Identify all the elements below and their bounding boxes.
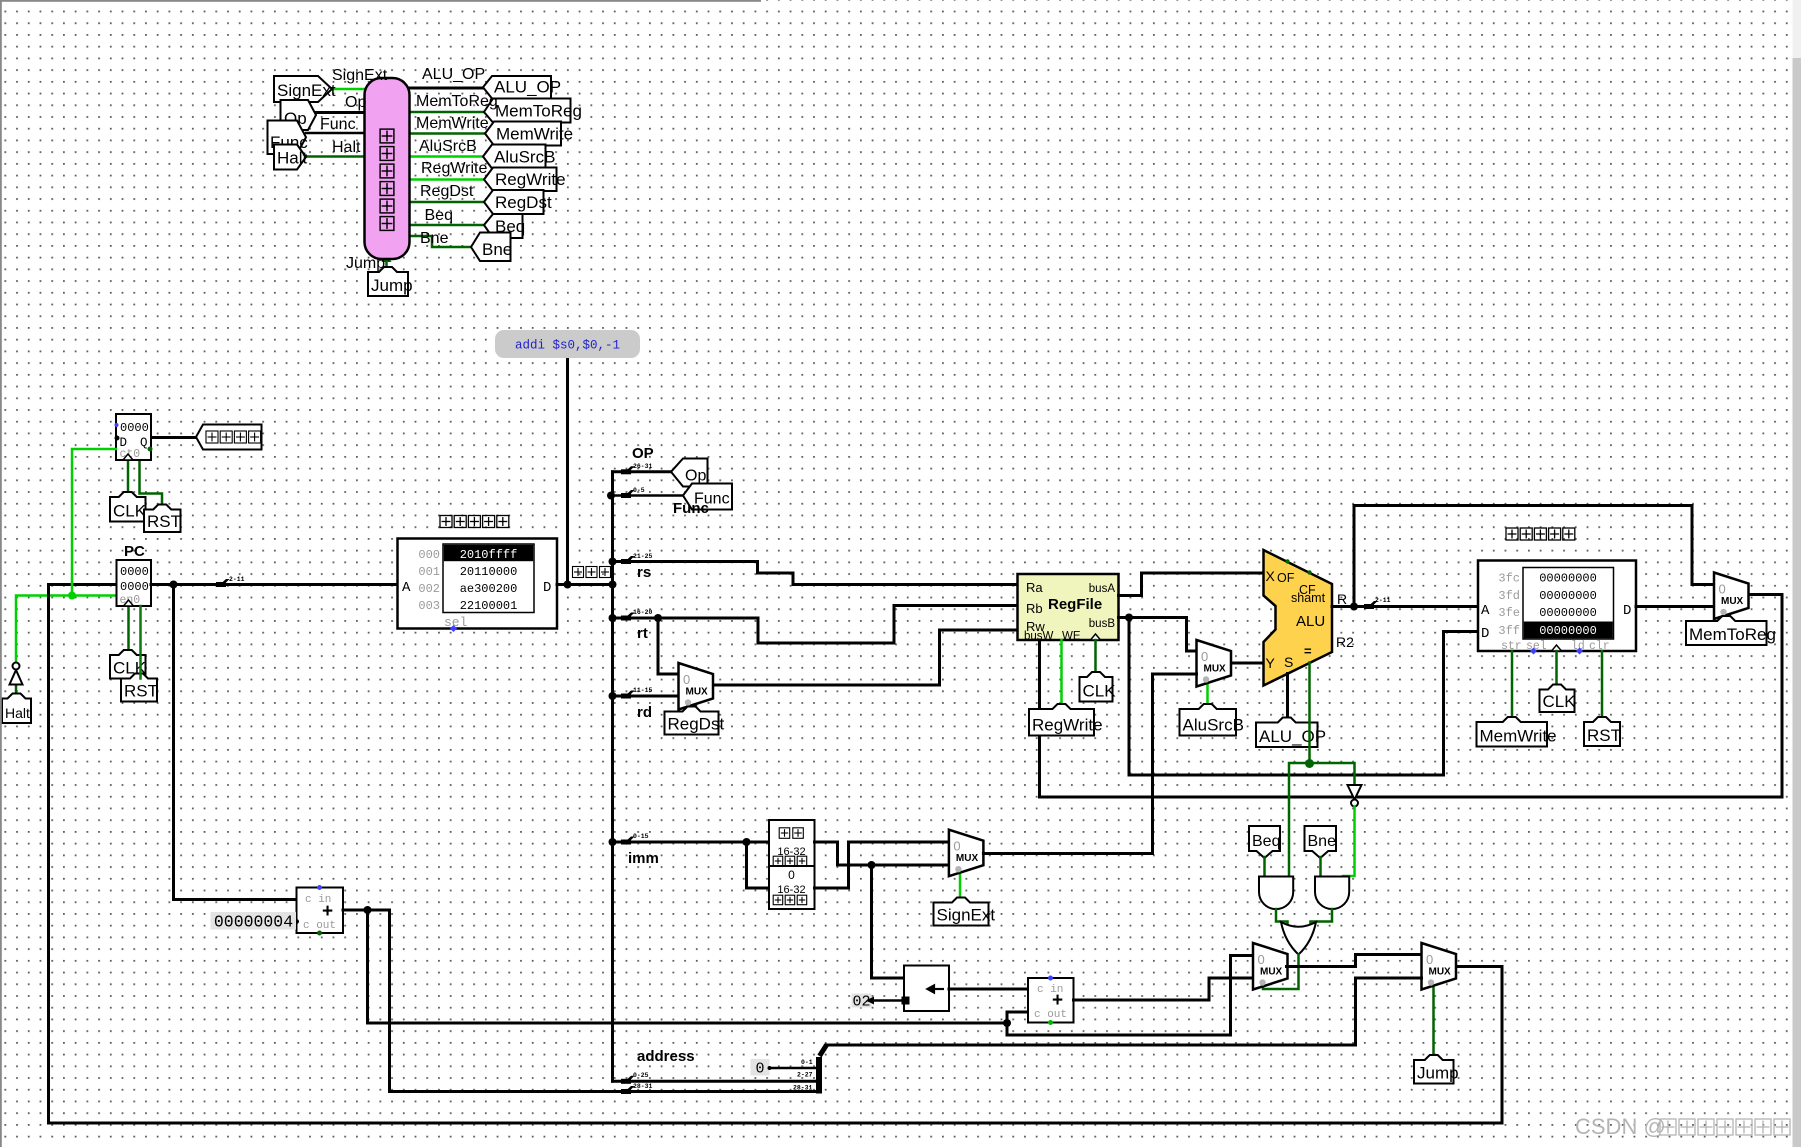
svg-text:MUX: MUX bbox=[956, 853, 979, 864]
splitter marker 26-31 bbox=[621, 466, 635, 474]
wire AluSrcB output bbox=[410, 155, 485, 158]
tunnel RegDst (dest) bbox=[665, 707, 719, 735]
constant 0 (low bits) bbox=[751, 1059, 770, 1076]
svg-text:addi $s0,$0,-1: addi $s0,$0,-1 bbox=[515, 339, 620, 353]
svg-text:Ra: Ra bbox=[1026, 580, 1043, 595]
tunnel CLK (PC) bbox=[110, 650, 146, 679]
svg-text:MemWrite: MemWrite bbox=[416, 115, 489, 132]
splitter marker 21-25 bbox=[621, 556, 635, 564]
svg-text:Halt: Halt bbox=[277, 149, 308, 168]
svg-text:Rb: Rb bbox=[1026, 601, 1043, 616]
svg-text:CLK: CLK bbox=[113, 502, 147, 521]
svg-text:RegDst: RegDst bbox=[420, 183, 474, 200]
svg-text:0: 0 bbox=[1201, 649, 1208, 664]
svg-text:Beq: Beq bbox=[425, 207, 453, 224]
AND gate U4 (bne and not-zero) bbox=[1315, 877, 1349, 910]
svg-text:00000004: 00000004 bbox=[214, 913, 293, 932]
svg-text:00000000: 00000000 bbox=[1539, 572, 1597, 586]
wire NOT output to Bne AND gate bbox=[1343, 807, 1355, 877]
svg-text:OF: OF bbox=[1277, 571, 1295, 585]
mux MemToReg select stub bbox=[1725, 616, 1728, 621]
junction imm branch bbox=[743, 838, 751, 846]
svg-text:22100001: 22100001 bbox=[460, 599, 518, 613]
wire Bne output bbox=[410, 236, 472, 247]
control unit U1 (single-cycle controller) bbox=[365, 78, 410, 259]
splitter marker 0-25 bbox=[621, 1076, 635, 1084]
svg-text:MUX: MUX bbox=[1429, 967, 1452, 978]
wire busW write-back data bbox=[1040, 595, 1783, 798]
wire instruction probe (tooltip) bbox=[566, 358, 569, 585]
tunnel Op (input) bbox=[281, 100, 317, 130]
data memory RAM bbox=[1478, 561, 1636, 652]
svg-text:00000000: 00000000 bbox=[1539, 606, 1597, 620]
svg-text:Jump: Jump bbox=[346, 255, 385, 272]
wire OR output to branch mux select bbox=[1263, 955, 1299, 990]
svg-text:A: A bbox=[1481, 603, 1490, 619]
tunnel Op (dest) bbox=[671, 459, 708, 487]
splitter marker 0-5 bbox=[621, 490, 635, 498]
tunnel Jump (dest) bbox=[1414, 1055, 1454, 1084]
tunnel RST (PC) bbox=[121, 674, 157, 702]
svg-text:Op: Op bbox=[345, 94, 366, 111]
svg-text:busA: busA bbox=[1089, 583, 1116, 595]
svg-text:2-11: 2-11 bbox=[229, 576, 245, 583]
tunnel Func (dest) bbox=[683, 484, 732, 510]
svg-text:Halt: Halt bbox=[332, 139, 361, 156]
svg-text:D: D bbox=[1481, 626, 1489, 642]
wire RAM str from MemWrite bbox=[1511, 651, 1514, 722]
junction enable net bbox=[68, 592, 76, 600]
svg-text:MemToReg: MemToReg bbox=[1689, 625, 1776, 644]
wire AND2 output to OR bbox=[1311, 909, 1333, 926]
wire Beq to AND gate bbox=[1263, 857, 1266, 877]
svg-text:28-31: 28-31 bbox=[793, 1085, 812, 1092]
tunnel CLK (counter) bbox=[110, 492, 146, 522]
instruction memory ROM bbox=[398, 539, 558, 629]
svg-text:Bne: Bne bbox=[482, 240, 512, 259]
canvas top border bbox=[0, 0, 761, 2]
svg-text:Op: Op bbox=[685, 468, 706, 485]
shifter U7 (shift left 2) bbox=[904, 966, 949, 1012]
constant 02 (shift amount) bbox=[852, 994, 872, 1008]
wire instr 0-25 to combiner bbox=[613, 1080, 817, 1083]
wire PC clk from CLK bbox=[127, 606, 130, 655]
wire ROM D output to instruction bus bbox=[557, 583, 613, 586]
svg-text:D: D bbox=[1623, 603, 1631, 619]
wire RegFile clk from CLK bbox=[1094, 640, 1097, 677]
counter register (total cycles) bbox=[116, 414, 151, 460]
svg-text:D: D bbox=[543, 580, 551, 596]
svg-text:3ff: 3ff bbox=[1498, 624, 1520, 638]
junction rt tap bbox=[609, 614, 617, 622]
splitter marker 28-31 bbox=[621, 1086, 635, 1094]
tunnel Beq (dest) bbox=[1249, 826, 1280, 858]
svg-text:SignExt: SignExt bbox=[277, 81, 336, 100]
svg-text:0: 0 bbox=[755, 1061, 764, 1078]
svg-text:MUX: MUX bbox=[1721, 596, 1744, 607]
svg-text:003: 003 bbox=[418, 599, 440, 613]
wire Halt input to control unit bbox=[306, 155, 365, 158]
junction busB bbox=[1125, 614, 1133, 622]
tunnel RegWrite (dest) bbox=[1029, 704, 1094, 736]
svg-text:WE: WE bbox=[1062, 631, 1081, 643]
wire AND1 output to OR bbox=[1276, 909, 1288, 926]
wire imm branch to zero extender bbox=[747, 842, 770, 888]
svg-text:ALU_OP: ALU_OP bbox=[422, 66, 485, 83]
wire PC D input bbox=[49, 583, 117, 586]
splitter marker 11-15 bbox=[621, 691, 635, 699]
wire Jump output bbox=[385, 259, 388, 272]
canvas left border bbox=[0, 0, 2, 1147]
wire PC value down to PC+4 adder bbox=[174, 585, 297, 900]
scrollbar right bbox=[1793, 0, 1801, 58]
junction PC+4 B bbox=[1003, 1019, 1011, 1027]
svg-text:RST: RST bbox=[1587, 726, 1621, 745]
wire const 0 to combiner bbox=[770, 1067, 817, 1070]
NOT gate (zero inverter) bbox=[1348, 785, 1362, 800]
svg-text:000: 000 bbox=[418, 548, 440, 562]
wire Func input to control unit bbox=[306, 132, 365, 135]
tunnel RegDst (output) bbox=[484, 190, 544, 214]
wire shift amount bbox=[869, 999, 904, 1002]
svg-text:26-31: 26-31 bbox=[633, 463, 652, 470]
wire RAM clk from CLK bbox=[1555, 651, 1558, 690]
svg-text:MemWrite: MemWrite bbox=[496, 125, 573, 144]
svg-text:Bne: Bne bbox=[1308, 833, 1337, 850]
svg-text:0: 0 bbox=[953, 839, 960, 854]
tunnel AluSrcB (output) bbox=[483, 145, 546, 169]
tunnel Bne (dest) bbox=[1305, 826, 1337, 858]
svg-text:rd: rd bbox=[637, 704, 652, 721]
svg-text:MemWrite: MemWrite bbox=[1480, 727, 1557, 746]
svg-text:imm: imm bbox=[628, 850, 659, 867]
tunnel Beq (output) bbox=[484, 214, 523, 238]
tooltip addi instruction bbox=[495, 330, 640, 358]
svg-text:shamt: shamt bbox=[1291, 591, 1326, 605]
wire AluSrcB mux output to ALU Y bbox=[1232, 662, 1264, 665]
mux SignExt bbox=[949, 830, 984, 877]
wire PC rst from RST bbox=[139, 606, 142, 679]
svg-text:=: = bbox=[1304, 644, 1312, 659]
wire rt branch to RegDst mux input 0 bbox=[658, 618, 679, 674]
AND gate U3 (beq and zero) bbox=[1259, 877, 1293, 910]
wire RegDst mux output to RegFile Rw bbox=[714, 630, 1018, 685]
mux branch (PC+4 vs target) bbox=[1253, 943, 1288, 990]
wire rt field to RegFile Rb bbox=[613, 606, 1018, 644]
wire ALU zero output net bbox=[1289, 663, 1355, 877]
svg-text:2-11: 2-11 bbox=[1375, 597, 1391, 604]
svg-text:0: 0 bbox=[1719, 582, 1726, 597]
svg-text:2010ffff: 2010ffff bbox=[460, 548, 518, 562]
svg-text:0000: 0000 bbox=[120, 580, 149, 594]
svg-text:RST: RST bbox=[124, 682, 158, 701]
svg-text:002: 002 bbox=[418, 582, 440, 596]
junction instr-bus at ROM output bbox=[609, 581, 617, 589]
wire counter clk from CLK bbox=[127, 460, 130, 497]
svg-text:00000000: 00000000 bbox=[1539, 589, 1597, 603]
svg-text:ALU: ALU bbox=[1296, 613, 1325, 630]
junction tooltip probe bbox=[564, 581, 572, 589]
tunnel CLK (RAM) bbox=[1540, 685, 1575, 713]
tunnel ALU_OP (dest) bbox=[1256, 718, 1318, 748]
sign extender (16 to 32) bbox=[769, 820, 815, 866]
wire Op input to control unit bbox=[316, 111, 365, 114]
zero extender (16 to 32) bbox=[769, 866, 815, 909]
svg-text:S: S bbox=[1284, 654, 1293, 670]
svg-text:Jump: Jump bbox=[371, 276, 413, 295]
svg-text:RST: RST bbox=[147, 512, 181, 531]
wire busB net to AluSrcB mux and data memory D bbox=[1119, 618, 1479, 776]
svg-text:0-15: 0-15 bbox=[633, 833, 649, 840]
wire imm field to sign extender bbox=[613, 841, 770, 844]
tunnel Bne (output) bbox=[471, 233, 511, 262]
mux Jump bbox=[1422, 943, 1457, 990]
svg-text:RegFile: RegFile bbox=[1048, 596, 1102, 613]
wire Halt tunnel to NOT input bbox=[15, 685, 18, 699]
constant 00000004 bbox=[211, 912, 297, 930]
junction ALU result bbox=[1350, 603, 1358, 611]
junction zero net bbox=[1305, 759, 1314, 768]
wire branch mux output to jump mux input 0 bbox=[1287, 955, 1422, 967]
svg-text:Q: Q bbox=[140, 436, 148, 450]
tunnel RST (RAM) bbox=[1584, 717, 1620, 746]
svg-text:Func: Func bbox=[320, 116, 356, 133]
svg-text:CLK: CLK bbox=[1543, 692, 1577, 711]
svg-text:SignExt: SignExt bbox=[332, 67, 388, 84]
svg-text:Func: Func bbox=[673, 500, 709, 517]
svg-text:ae300200: ae300200 bbox=[460, 582, 518, 596]
wire branch target to branch mux input 1 bbox=[1074, 978, 1254, 1000]
PC register bbox=[117, 560, 152, 606]
svg-text:CLK: CLK bbox=[1083, 682, 1117, 701]
junction PC out bbox=[170, 581, 178, 589]
svg-text:+: + bbox=[322, 901, 333, 922]
tunnel CLK (RegFile) bbox=[1080, 672, 1113, 702]
svg-text:address: address bbox=[637, 1048, 695, 1065]
svg-text:MemToReg: MemToReg bbox=[495, 102, 582, 121]
svg-text:RegDst: RegDst bbox=[668, 715, 725, 734]
junction rt branch bbox=[654, 614, 662, 622]
mux SignExt select stub bbox=[959, 873, 962, 903]
wire Func field to Func tunnel bbox=[613, 494, 684, 497]
svg-text:20110000: 20110000 bbox=[460, 565, 518, 579]
svg-text:RegWrite: RegWrite bbox=[1032, 716, 1103, 735]
tunnel RST (counter) bbox=[144, 505, 181, 533]
svg-text:ALU_OP: ALU_OP bbox=[494, 78, 561, 97]
wire Beq output bbox=[410, 224, 486, 227]
svg-text:MemToReg: MemToReg bbox=[416, 93, 498, 110]
svg-text:rt: rt bbox=[637, 625, 648, 642]
ALU U2 bbox=[1264, 550, 1333, 686]
wire sign-ext output to SignExt mux input 1 and branch offset bbox=[815, 842, 950, 865]
OR gate U5 (branch taken) bbox=[1281, 922, 1316, 955]
svg-text:Halt: Halt bbox=[5, 705, 30, 721]
svg-text:c out: c out bbox=[1034, 1009, 1067, 1021]
wire ALU S input from ALU_OP bbox=[1286, 674, 1289, 723]
svg-text:2-27: 2-27 bbox=[797, 1072, 813, 1079]
svg-text:0: 0 bbox=[1258, 952, 1265, 967]
svg-text:AluSrcB: AluSrcB bbox=[1183, 716, 1244, 735]
tunnel SignExt (dest) bbox=[934, 898, 989, 926]
adder U8 (branch target) bbox=[1028, 978, 1074, 1023]
svg-text:X: X bbox=[1266, 568, 1276, 584]
wire SignExt mux output to AluSrcB mux input 1 bbox=[983, 674, 1196, 854]
wire ALU result R bbox=[1332, 605, 1478, 608]
junction imm tap bbox=[609, 838, 617, 846]
tunnel MemToReg (output) bbox=[484, 99, 571, 123]
mux MemToReg bbox=[1714, 573, 1749, 620]
wire RAM D output to MemToReg mux input 1 bbox=[1636, 605, 1714, 608]
junction sign-ext offset tap bbox=[868, 861, 876, 869]
mux RegDst bbox=[679, 663, 714, 710]
tunnel Func (input) bbox=[268, 121, 307, 155]
splitter marker 2-11 on ROM address bbox=[216, 579, 230, 587]
adder U6 (PC+4) bbox=[297, 888, 344, 934]
svg-text:+: + bbox=[1052, 990, 1063, 1011]
wire MemToReg output bbox=[410, 111, 486, 114]
svg-text:R2: R2 bbox=[1336, 634, 1354, 650]
wire RegDst output bbox=[410, 201, 486, 204]
svg-text:001: 001 bbox=[418, 565, 440, 579]
tunnel ALU_OP (output) bbox=[483, 76, 551, 99]
svg-text:OP: OP bbox=[632, 445, 654, 462]
svg-text:Jump: Jump bbox=[1417, 1064, 1459, 1083]
wire counter rst from RST bbox=[140, 460, 163, 510]
NOT gate (halt inverter) bbox=[10, 670, 23, 685]
svg-text:ALU_OP: ALU_OP bbox=[1259, 727, 1326, 746]
svg-text:3fc: 3fc bbox=[1498, 572, 1520, 586]
wire busA to ALU X bbox=[1119, 573, 1264, 596]
svg-text:11-15: 11-15 bbox=[633, 687, 652, 694]
wire Halt NOT output to enables (bright green net) bbox=[16, 449, 117, 663]
wire RegFile WE from RegWrite bbox=[1060, 640, 1063, 709]
wire PC+4 net (adder out to branch adder / jump splitter / branch mux) bbox=[343, 910, 1253, 1092]
tunnel MemWrite (output) bbox=[485, 122, 561, 146]
mux AluSrcB bbox=[1197, 640, 1232, 687]
svg-text:28-31: 28-31 bbox=[633, 1083, 652, 1090]
svg-text:0: 0 bbox=[683, 672, 690, 687]
tunnel SignExt (input) bbox=[274, 76, 332, 102]
junction rd tap bbox=[609, 692, 617, 700]
tunnel RegWrite (output) bbox=[484, 168, 557, 192]
mux AluSrcB select stub bbox=[1206, 682, 1209, 710]
tunnel Halt (input) bbox=[274, 145, 306, 170]
tunnel MemWrite (dest) bbox=[1477, 717, 1548, 747]
svg-text:A: A bbox=[402, 580, 411, 596]
svg-text:0000: 0000 bbox=[120, 565, 149, 579]
svg-text:Y: Y bbox=[1266, 655, 1276, 671]
wire RegWrite output bbox=[410, 178, 486, 181]
svg-text:Bne: Bne bbox=[420, 230, 449, 247]
svg-text:0-1: 0-1 bbox=[801, 1059, 813, 1066]
wire RAM clr from RST bbox=[1601, 651, 1604, 722]
splitter combiner (jump address) bbox=[816, 1057, 822, 1094]
wire PC Q to instruction memory A bbox=[151, 583, 398, 586]
wire ALU result loop to MemToReg mux input 0 bbox=[1354, 506, 1714, 607]
svg-text:0000: 0000 bbox=[120, 421, 149, 435]
svg-text:16-32: 16-32 bbox=[777, 884, 805, 896]
wire SignExt input to control unit bbox=[332, 88, 365, 91]
wire counter Q to tunnel bbox=[151, 436, 196, 439]
wire rd field to RegDst mux input 1 bbox=[613, 695, 679, 698]
register file RegFile bbox=[1018, 574, 1119, 640]
svg-text:RegWrite: RegWrite bbox=[495, 170, 566, 189]
svg-text:AluSrcB: AluSrcB bbox=[494, 148, 555, 167]
svg-text:16-20: 16-20 bbox=[633, 609, 652, 616]
tunnel Jump (output) bbox=[368, 267, 408, 296]
wire OP field to Op tunnel bbox=[613, 470, 672, 473]
svg-text:00000000: 00000000 bbox=[1539, 624, 1597, 638]
mux jump select stub wire bbox=[1432, 986, 1435, 1060]
svg-text:0: 0 bbox=[788, 868, 795, 882]
svg-text:R: R bbox=[1337, 591, 1347, 607]
svg-text:3fe: 3fe bbox=[1498, 606, 1520, 620]
svg-text:AluSrcB: AluSrcB bbox=[419, 138, 477, 155]
wire jump address to jump mux input 1 bbox=[826, 978, 1422, 1045]
tunnel MemToReg (dest) bbox=[1686, 616, 1767, 645]
label instruction word (zhilingzi) bbox=[573, 567, 584, 578]
svg-text:PC: PC bbox=[124, 543, 145, 560]
wire rs field to RegFile Ra bbox=[613, 562, 1018, 585]
svg-text:CSDN @: CSDN @ bbox=[1575, 1114, 1666, 1139]
svg-text:Beq: Beq bbox=[1252, 833, 1280, 850]
splitter marker 0-15 bbox=[621, 837, 635, 845]
svg-text:RegWrite: RegWrite bbox=[421, 160, 487, 177]
instruction bus vertical bbox=[611, 472, 614, 1082]
svg-text:RegDst: RegDst bbox=[495, 193, 552, 212]
svg-text:SignExt: SignExt bbox=[937, 906, 996, 925]
svg-text:3fd: 3fd bbox=[1498, 589, 1520, 603]
svg-text:0-5: 0-5 bbox=[633, 487, 645, 494]
tunnel Halt (source) bbox=[2, 694, 31, 724]
svg-text:02: 02 bbox=[852, 994, 870, 1011]
wire zero-ext output to SignExt mux input 0 bbox=[815, 842, 950, 888]
mux RegDst select stub bbox=[695, 706, 698, 712]
wire MemWrite output bbox=[410, 132, 487, 135]
splitter marker 16-20 bbox=[621, 613, 635, 621]
svg-text:MUX: MUX bbox=[1204, 664, 1227, 675]
junction Func tap bbox=[607, 492, 615, 500]
wire next-PC feedback (jump mux output to PC) bbox=[49, 585, 1503, 1124]
tunnel AluSrcB (dest) bbox=[1180, 704, 1237, 736]
svg-text:MUX: MUX bbox=[1260, 967, 1283, 978]
svg-text:0: 0 bbox=[1426, 952, 1433, 967]
svg-text:0-25: 0-25 bbox=[633, 1072, 649, 1079]
wire ALU_OP output bbox=[410, 87, 485, 90]
svg-text:c out: c out bbox=[303, 920, 336, 932]
svg-text:MUX: MUX bbox=[686, 687, 709, 698]
wire offset to shifter bbox=[872, 865, 905, 978]
splitter marker 2-11 on RAM address bbox=[1364, 601, 1378, 609]
svg-text:rs: rs bbox=[637, 564, 651, 581]
wire Bne to AND gate bbox=[1319, 857, 1322, 877]
svg-text:busB: busB bbox=[1089, 618, 1116, 630]
svg-text:21-25: 21-25 bbox=[633, 553, 652, 560]
junction rs tap bbox=[609, 558, 617, 566]
junction PC+4 A bbox=[364, 906, 372, 914]
svg-text:clr: clr bbox=[1589, 640, 1610, 653]
wire shifter output to branch adder bbox=[949, 988, 1028, 991]
tunnel cycle-count (zhouqishu) bbox=[196, 425, 262, 450]
